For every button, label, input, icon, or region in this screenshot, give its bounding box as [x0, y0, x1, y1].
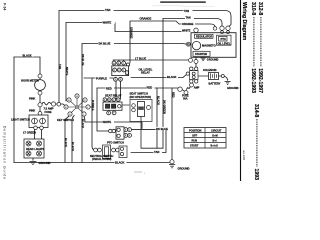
svg-text:TAN: TAN [186, 16, 191, 20]
svg-text:B+I: B+I [213, 138, 217, 142]
svg-text:START: START [190, 144, 199, 148]
svg-text:RED: RED [106, 86, 112, 90]
svg-text:POSITION: POSITION [189, 128, 202, 132]
svg-text:OFF: OFF [192, 133, 198, 137]
svg-text:BLACK: BLACK [71, 142, 75, 151]
svg-text:Wiring Diagram: Wiring Diagram [241, 2, 247, 41]
svg-text:HOUR METER: HOUR METER [21, 79, 39, 83]
svg-text:DK GREEN: DK GREEN [162, 100, 166, 114]
svg-text:WHITE: WHITE [182, 29, 191, 33]
svg-text:PINK: PINK [29, 109, 35, 113]
svg-text:RED: RED [171, 92, 175, 98]
svg-text:CIRCUIT: CIRCUIT [211, 128, 222, 132]
svg-text:G+M: G+M [212, 133, 218, 137]
svg-text:DK BLUE: DK BLUE [156, 127, 168, 131]
svg-text:WHITE: WHITE [103, 120, 112, 124]
svg-text:BLACK: BLACK [64, 138, 68, 147]
svg-text:BLACK: BLACK [81, 119, 85, 128]
svg-text:HEAD LIGHTS: HEAD LIGHTS [26, 147, 44, 151]
svg-text:F-34: F-34 [3, 3, 7, 10]
svg-text:(NO OPERATOR): (NO OPERATOR) [130, 95, 152, 99]
svg-text:REGULATOR: REGULATOR [196, 35, 212, 39]
svg-text:310-8 ························: 310-8 ····························· 1992… [250, 2, 256, 93]
svg-text:GROUND: GROUND [227, 86, 239, 90]
svg-text:BLACK: BLACK [167, 75, 176, 79]
svg-text:KEY SWITCH: KEY SWITCH [57, 118, 74, 122]
svg-text:PTO SWITCH: PTO SWITCH [107, 140, 124, 144]
svg-text:PURPLE: PURPLE [91, 100, 95, 111]
svg-text:GROUND: GROUND [178, 166, 190, 170]
svg-text:STARTER: STARTER [195, 52, 207, 56]
svg-text:FUSE: FUSE [45, 110, 52, 114]
svg-text:rev 4/93: rev 4/93 [242, 150, 246, 161]
svg-text:RED: RED [147, 85, 153, 89]
svg-text:TAN: TAN [105, 8, 110, 12]
svg-text:BLACK: BLACK [23, 53, 32, 57]
svg-text:WHITE: WHITE [65, 67, 69, 76]
svg-text:TAN: TAN [184, 9, 189, 13]
svg-text:OIL LEVEL: OIL LEVEL [218, 42, 231, 45]
svg-text:DK BLUE: DK BLUE [81, 54, 85, 66]
svg-text:WHITE: WHITE [103, 20, 112, 24]
svg-text:ORANGE: ORANGE [182, 22, 194, 26]
svg-text:TAN: TAN [154, 150, 159, 154]
svg-text:GROUND: GROUND [207, 58, 219, 62]
svg-text:PTO: PTO [221, 37, 226, 41]
svg-text:30A: 30A [183, 98, 188, 101]
svg-text:(PEDAL DOWN): (PEDAL DOWN) [92, 157, 112, 161]
svg-text:LIGHT SWITCH: LIGHT SWITCH [11, 117, 30, 121]
svg-text:RELAY: RELAY [141, 71, 150, 75]
svg-text:LT BLUE: LT BLUE [135, 57, 146, 61]
svg-text:ORANGE: ORANGE [140, 17, 152, 21]
svg-text:PINK: PINK [29, 97, 35, 101]
svg-text:SOLENOID: SOLENOID [203, 68, 217, 72]
svg-text:ORANGE: ORANGE [129, 27, 133, 39]
svg-text:LT GREEN: LT GREEN [23, 131, 36, 135]
svg-text:Demystification Guide: Demystification Guide [3, 126, 7, 180]
svg-text:SEAT RELAY: SEAT RELAY [105, 94, 122, 98]
svg-text:GROUND: GROUND [39, 161, 51, 165]
svg-text:BLACK: BLACK [156, 96, 160, 105]
svg-text:DK BLUE: DK BLUE [99, 41, 111, 45]
svg-text:PURPLE: PURPLE [96, 77, 107, 81]
svg-text:B+I+S: B+I+S [211, 144, 219, 148]
svg-text:BATTERY: BATTERY [209, 81, 221, 85]
svg-text:AMP: AMP [194, 87, 200, 90]
svg-text:RUN: RUN [192, 138, 198, 142]
svg-text:312-8 ························: 312-8 ····························· 1992… [257, 2, 263, 93]
svg-text:MAGNETO: MAGNETO [202, 44, 216, 48]
svg-text:314-8 ························: 314-8 ···························· 1993 [253, 104, 259, 180]
svg-text:BLACK: BLACK [115, 160, 124, 164]
